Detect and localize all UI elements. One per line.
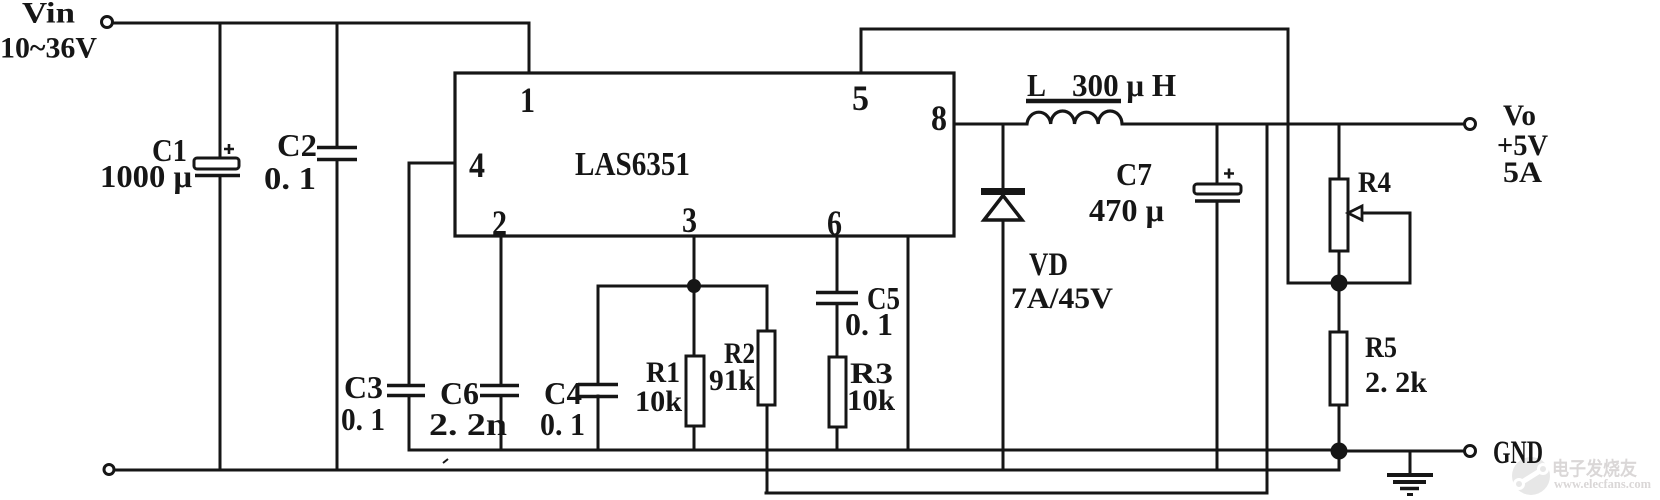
svg-text:R4: R4 <box>1358 166 1391 199</box>
svg-text:1000 μ: 1000 μ <box>100 158 192 194</box>
svg-text:0. 1: 0. 1 <box>264 160 316 196</box>
svg-text:C2: C2 <box>277 127 317 163</box>
svg-text:300 μ H: 300 μ H <box>1072 67 1176 103</box>
svg-text:C7: C7 <box>1116 156 1152 192</box>
svg-text:2. 2n: 2. 2n <box>429 406 507 442</box>
svg-text:91k: 91k <box>709 364 755 397</box>
svg-text:1: 1 <box>520 80 535 120</box>
svg-text:2. 2k: 2. 2k <box>1365 366 1427 399</box>
svg-text:10k: 10k <box>847 384 895 417</box>
svg-text:L: L <box>1027 67 1046 103</box>
svg-text:0. 1: 0. 1 <box>845 306 893 342</box>
svg-text:10~36V: 10~36V <box>0 32 97 65</box>
svg-text:10k: 10k <box>635 385 682 418</box>
svg-text:C3: C3 <box>344 369 383 405</box>
svg-text:Vin: Vin <box>22 0 75 30</box>
svg-text:Vo: Vo <box>1503 99 1536 132</box>
svg-text:LAS6351: LAS6351 <box>575 146 690 183</box>
svg-text:0. 1: 0. 1 <box>540 406 585 442</box>
svg-text:470 μ: 470 μ <box>1089 192 1164 228</box>
svg-text:0. 1: 0. 1 <box>341 401 385 437</box>
svg-text:R5: R5 <box>1365 331 1397 364</box>
svg-text:8: 8 <box>931 98 947 138</box>
svg-text:5: 5 <box>852 78 869 118</box>
svg-text:VD: VD <box>1029 247 1068 283</box>
svg-text:2: 2 <box>492 203 507 243</box>
svg-text:4: 4 <box>469 145 485 185</box>
svg-text:7A/45V: 7A/45V <box>1011 282 1113 315</box>
svg-text:5A: 5A <box>1503 156 1542 189</box>
svg-text:6: 6 <box>827 203 842 243</box>
svg-text:GND: GND <box>1493 435 1543 471</box>
svg-text:www.elecfans.com: www.elecfans.com <box>1554 476 1651 491</box>
svg-text:3: 3 <box>682 200 697 240</box>
